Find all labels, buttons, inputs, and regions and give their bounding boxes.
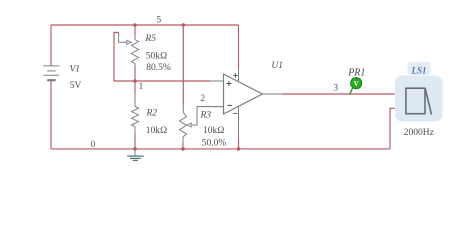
wire battery bottom lead [50, 81, 52, 149]
svg-text:V: V [354, 80, 360, 88]
svg-text:80.5%: 80.5% [146, 63, 171, 73]
svg-text:2000Hz: 2000Hz [404, 128, 434, 138]
wire node 3 output to speaker [282, 93, 394, 95]
svg-text:R5: R5 [144, 34, 156, 44]
wire node 2 to inverting input [197, 106, 224, 108]
battery V1 [43, 66, 59, 80]
svg-text:10kΩ: 10kΩ [146, 126, 168, 136]
svg-text:R2: R2 [146, 108, 158, 118]
svg-text:0: 0 [91, 139, 96, 149]
pin op-amp V+ [238, 68, 240, 82]
pin op-amp non-inverting input [210, 80, 224, 82]
wire op-amp V- to bottom rail [238, 138, 240, 149]
svg-text:3: 3 [334, 82, 339, 92]
speaker LS1 highlight box [395, 76, 443, 122]
svg-text:5: 5 [157, 14, 162, 24]
junction node 0 at R3 [181, 147, 185, 151]
svg-text:5V: 5V [70, 81, 82, 91]
wire R3 branch from top rail [182, 25, 184, 105]
junction node 1 [133, 79, 137, 83]
svg-text:PR1: PR1 [347, 67, 365, 78]
wire bottom rail to speaker lower pin [390, 108, 392, 149]
svg-text:50.0%: 50.0% [202, 138, 227, 148]
junction node 5 at R5 [133, 23, 137, 27]
pin speaker top [394, 93, 406, 95]
speaker LS1 symbol [406, 88, 432, 114]
svg-text:2: 2 [201, 93, 206, 103]
ground [127, 149, 144, 161]
wire left rail battery branch [50, 25, 52, 66]
wire bottom rail node 0 [51, 148, 390, 150]
svg-text:1: 1 [139, 81, 144, 91]
probe PR1 [350, 78, 362, 94]
svg-text:R3: R3 [200, 110, 212, 120]
pin speaker bottom [392, 107, 406, 109]
svg-text:10kΩ: 10kΩ [203, 126, 225, 136]
wire R2 top lead [134, 81, 136, 94]
pin op-amp output [263, 93, 283, 95]
potentiometer R3 [180, 105, 198, 143]
resistor R2 [132, 94, 139, 135]
wire R5 bottom lead to node 1 [134, 66, 136, 81]
wire R3 bottom lead [182, 143, 184, 149]
svg-text:U1: U1 [271, 61, 283, 71]
wire R2 bottom lead [134, 134, 136, 149]
wire R5 top lead [134, 25, 136, 35]
op-amp power polarity marks [233, 73, 238, 113]
junction node 0 at R2 [133, 147, 137, 151]
junction node 5 at R3 branch [182, 23, 186, 27]
pin op-amp V- [238, 107, 240, 138]
svg-text:50kΩ: 50kΩ [146, 51, 168, 61]
op-amp U1 [224, 74, 263, 114]
svg-text:LS1: LS1 [410, 66, 426, 76]
svg-text:V1: V1 [70, 65, 81, 75]
junction node 0 at op-amp V- [237, 147, 241, 151]
wire R5 wiper to node 1 [114, 33, 119, 82]
wire top rail node 5 [51, 24, 239, 26]
op-amp input polarity marks [226, 81, 232, 105]
potentiometer R5 [119, 33, 139, 67]
label LS1 box [408, 62, 431, 75]
wire op-amp V+ to top rail [238, 25, 240, 68]
wire node 1 horizontal to op-amp [114, 80, 210, 82]
